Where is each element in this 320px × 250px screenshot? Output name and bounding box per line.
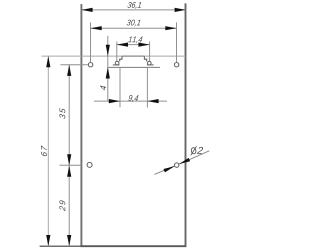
part top face line	[42, 55, 123, 57]
leader arrow lower	[164, 166, 175, 172]
dim 67 label	[41, 145, 47, 156]
part right edge	[185, 3, 187, 246]
hole top-left	[88, 62, 92, 66]
dim 4 line	[107, 36, 109, 101]
dim 11,4 ext left	[116, 42, 118, 62]
label dia 2 symbol	[191, 146, 197, 155]
dim 35 top ext	[60, 64, 88, 66]
dim 29 label	[59, 200, 65, 211]
dim 67 top arrow	[46, 56, 50, 67]
dim 30,1 ext right	[176, 22, 178, 62]
dim 36,1 line	[81, 9, 185, 11]
label dia 2 digit	[197, 147, 203, 154]
hook right	[144, 56, 153, 65]
part left edge	[80, 4, 82, 246]
dim 9,4 ext right	[146, 68, 148, 108]
dim 9,4 label	[128, 95, 138, 102]
dim 4 top arrow	[106, 45, 110, 56]
dim 29 junction ext	[60, 164, 82, 166]
dim 29 top arrow	[67, 166, 71, 177]
leader arrow upper	[179, 158, 190, 164]
dim 30,1 label	[127, 20, 141, 27]
dim 9,4 right arrow	[147, 99, 158, 103]
dim 67 bottom arrow	[46, 235, 50, 246]
dim 35/29 line	[68, 65, 70, 247]
dim 30,1 line	[91, 27, 177, 29]
dim 35 top arrow	[67, 65, 71, 76]
leader line upper segment	[179, 151, 209, 164]
dim 11,4 right arrow	[138, 43, 149, 47]
dim 11,4 label	[128, 36, 143, 43]
dim 4 bottom arrow	[106, 67, 110, 78]
dim 67 line	[47, 56, 49, 246]
dim 35 bottom arrow	[67, 154, 71, 165]
dim 35 label	[59, 108, 65, 119]
bottom extension line	[40, 245, 81, 247]
dim 30,1 left arrow	[91, 26, 102, 30]
inner slot line	[108, 66, 160, 68]
part bottom edge	[81, 245, 187, 247]
hole bottom-right	[175, 163, 179, 167]
dim 30,1 right arrow	[165, 26, 176, 30]
dim 9,4 ext left	[119, 68, 121, 108]
dim 30,1 ext left	[90, 22, 92, 62]
dim 9,4 line	[94, 100, 167, 102]
dim 11,4 ext right	[149, 42, 151, 62]
dim 11,4 left arrow	[117, 43, 128, 47]
dim 29 bottom arrow	[67, 235, 71, 246]
hole top-right	[174, 62, 178, 66]
hole bottom-left	[87, 162, 92, 167]
hook left	[113, 56, 122, 65]
dim 36,1 left arrow	[81, 8, 92, 12]
dim 11,4 line	[117, 44, 150, 46]
dim 9,4 left arrow	[109, 99, 120, 103]
dim 36,1 label	[127, 2, 141, 9]
dim 4 label	[100, 86, 106, 91]
leader line lower segment	[154, 166, 174, 174]
dim 36,1 right arrow	[175, 8, 186, 12]
